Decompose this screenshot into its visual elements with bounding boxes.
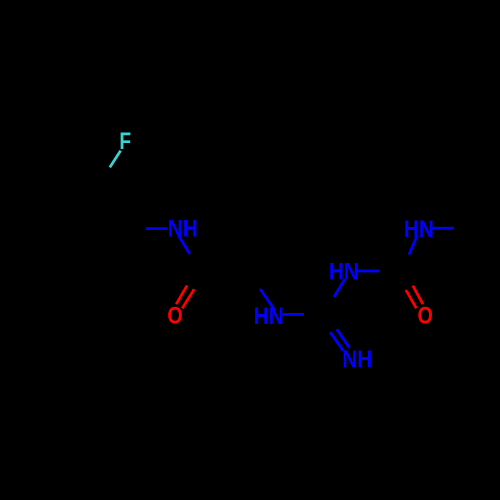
bond N1-C1(carbonyl), N half bbox=[179, 236, 190, 254]
double bond Cg=N3, N half line 1 bbox=[330, 332, 343, 351]
svg-text:HN: HN bbox=[254, 303, 284, 330]
bond CH2-N2, N half bbox=[260, 289, 275, 311]
bond C(ring)-N1, N half bbox=[146, 227, 167, 230]
double bond C2=O2, O half line 1 bbox=[406, 290, 417, 308]
bond N2-Cg(guanidine C), N half bbox=[282, 313, 304, 316]
svg-text:HN: HN bbox=[404, 216, 434, 243]
svg-text:F: F bbox=[119, 127, 131, 155]
bond N4-Cg, N half bbox=[334, 279, 345, 297]
double bond C2=O2, O half line 2 bbox=[413, 286, 423, 305]
bond N5-CH3, N half bbox=[433, 227, 454, 230]
bond N5-C2, N half bbox=[409, 236, 417, 255]
svg-text:HN: HN bbox=[329, 258, 359, 285]
svg-text:O: O bbox=[167, 302, 182, 329]
double bond C1=O1, O half line 2 bbox=[182, 289, 194, 308]
svg-text:O: O bbox=[418, 302, 433, 329]
bond N4-C2(urea carbonyl), N half bbox=[357, 270, 379, 273]
bond F-C(ring), F half bbox=[110, 151, 121, 168]
double bond C1=O1, O half line 1 bbox=[176, 286, 187, 305]
svg-text:NH: NH bbox=[168, 215, 198, 242]
svg-text:NH: NH bbox=[342, 345, 372, 372]
double bond Cg=N3, N half line 2 bbox=[337, 329, 350, 348]
